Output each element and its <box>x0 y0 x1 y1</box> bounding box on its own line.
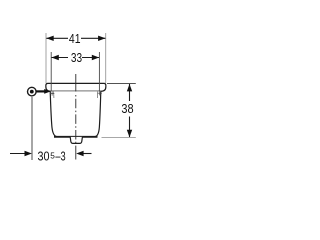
extension line left of dim 41 <box>45 33 47 83</box>
cistern lid <box>46 83 106 91</box>
dimension 33 right arrowhead <box>92 55 99 60</box>
svg-text:38: 38 <box>121 101 133 116</box>
dimension 41 right arrowhead <box>98 36 105 41</box>
svg-text:33: 33 <box>71 50 82 65</box>
bottom dimension left arrow <box>10 153 27 155</box>
extension line left of dim 33 <box>50 52 52 91</box>
dimension 38 bottom arrowhead <box>127 130 132 137</box>
extension line right of dim 33 <box>98 52 100 91</box>
svg-text:–3: –3 <box>55 148 65 163</box>
extension line below supply circle <box>31 97 33 160</box>
centerline (dash-dot) of cistern <box>75 74 77 92</box>
dimension 38 top extension line <box>107 83 136 85</box>
dimension 33 left arrowhead <box>51 55 58 60</box>
dimension 33 line <box>51 57 68 59</box>
cross tick left <box>50 91 54 95</box>
tank inner wall hint left <box>53 92 55 99</box>
water supply line with arrow <box>36 90 45 92</box>
water supply circle <box>28 87 37 96</box>
svg-text:41: 41 <box>69 31 81 46</box>
tank bottom edge (thicker) <box>54 136 98 138</box>
svg-text:30: 30 <box>38 148 50 163</box>
dimension 38 bottom extension line <box>102 137 136 139</box>
dimension 41 line <box>46 37 68 39</box>
dimension 41 left arrowhead <box>46 36 53 41</box>
tank body <box>50 91 101 136</box>
cross tick right <box>98 91 102 95</box>
dimension 38 top arrowhead <box>127 84 132 91</box>
bottom dimension right arrow <box>81 153 92 155</box>
extension line right of dim 41 <box>105 33 107 83</box>
flush outlet stub <box>70 137 82 144</box>
tank inner wall hint right <box>96 92 98 99</box>
dimension 38 line <box>129 84 131 101</box>
